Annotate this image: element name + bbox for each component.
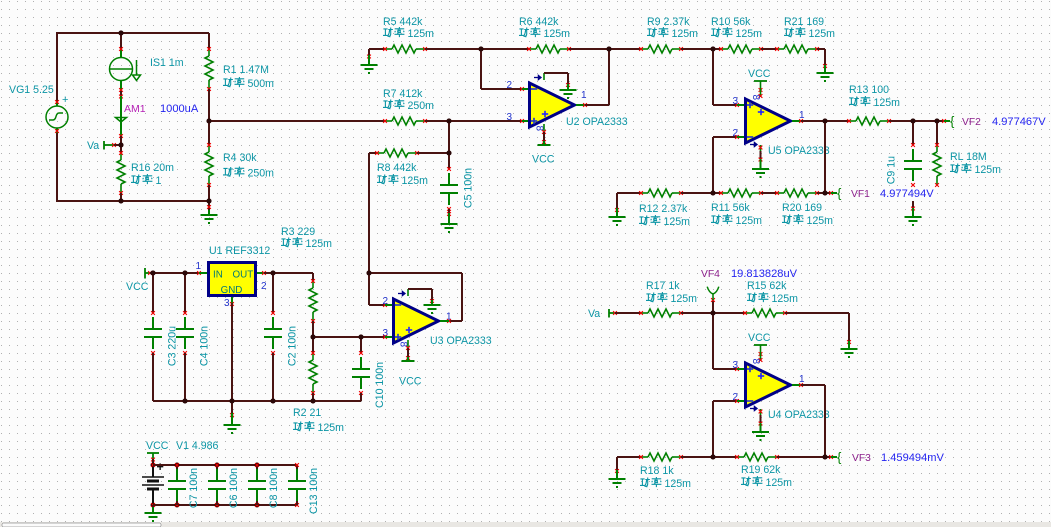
svg-text:C5 100n: C5 100n	[463, 168, 475, 208]
svg-text:125m: 125m	[664, 216, 691, 228]
node battery bottom	[151, 503, 156, 508]
svg-text:R19 62k: R19 62k	[741, 464, 781, 476]
wire U4 output	[792, 384, 801, 386]
wire U4 pin2	[712, 401, 714, 457]
node U3 feedback	[367, 271, 372, 276]
node Va	[119, 143, 124, 148]
op-amp U4	[746, 363, 791, 407]
svg-text:VF2: VF2	[962, 117, 981, 128]
svg-text:R20 169: R20 169	[782, 202, 822, 214]
node out-left	[207, 119, 212, 124]
svg-text:C4 100n: C4 100n	[199, 326, 211, 366]
capacitor C13	[296, 465, 298, 469]
svg-text:1000uA: 1000uA	[160, 103, 199, 115]
svg-text:125m: 125m	[766, 477, 793, 489]
svg-text:8: 8	[750, 95, 761, 101]
ground R15	[841, 349, 858, 357]
node U5 out	[823, 119, 828, 124]
svg-text:R12 2.37k: R12 2.37k	[639, 203, 688, 215]
svg-text:VCC: VCC	[146, 440, 169, 452]
resistor R19	[737, 453, 777, 461]
capacitor C3	[152, 273, 154, 313]
wire U2 output	[576, 104, 585, 106]
svg-text:R21 169: R21 169	[784, 16, 824, 28]
wire R8 feedback drop	[368, 153, 370, 273]
svg-text:VCC: VCC	[748, 332, 771, 344]
capacitor C6	[215, 463, 220, 468]
svg-text:19.813828uV: 19.813828uV	[731, 268, 798, 280]
resistor R20	[777, 189, 817, 197]
ground U2	[560, 90, 577, 98]
resistor R7	[385, 117, 425, 125]
node C3 top	[151, 271, 156, 276]
U1 pin2 wire	[257, 272, 263, 274]
node R3/R2	[311, 335, 316, 340]
svg-text:1: 1	[156, 175, 162, 187]
voltage source VG1	[56, 131, 58, 202]
svg-text:125m: 125m	[975, 164, 1002, 176]
resistor R3	[309, 281, 317, 321]
ground U3	[424, 305, 441, 313]
svg-text:R15 62k: R15 62k	[747, 280, 787, 292]
wire R6-R9	[569, 48, 641, 50]
svg-text:{: {	[950, 114, 955, 129]
capacitor C9	[912, 121, 914, 145]
resistor R15	[745, 309, 785, 317]
svg-text:U4 OPA2333: U4 OPA2333	[768, 409, 830, 421]
node battery top	[151, 463, 156, 468]
U1 pin1 tick	[197, 271, 201, 275]
resistor R17	[641, 309, 681, 317]
svg-text:1: 1	[581, 90, 587, 101]
U5 bottom pin gnd	[750, 143, 757, 147]
ground C9	[912, 201, 914, 209]
resistor R21	[777, 45, 817, 53]
wire vcc cap rail bottom	[153, 504, 297, 506]
wire R21 to gnd	[817, 48, 825, 50]
resistor R2	[312, 337, 314, 353]
svg-text:2: 2	[506, 80, 512, 91]
node R7/R8/C5	[447, 119, 452, 124]
battery V1	[142, 465, 164, 505]
svg-text:4.977467V: 4.977467V	[992, 116, 1046, 128]
op-amp U3	[394, 299, 439, 343]
svg-text:R16 20m: R16 20m	[131, 162, 174, 174]
svg-text:8: 8	[750, 359, 761, 365]
svg-text:125m: 125m	[672, 28, 699, 40]
svg-text:125m: 125m	[736, 215, 763, 227]
svg-text:125m: 125m	[318, 422, 345, 434]
IC U1 REF3312	[209, 263, 256, 296]
probe VF4	[712, 301, 714, 313]
U3 top pin to ground	[398, 292, 405, 296]
svg-text:R2 21: R2 21	[293, 407, 321, 419]
svg-text:1.459494mV: 1.459494mV	[881, 452, 945, 464]
svg-text:IN: IN	[213, 270, 223, 281]
svg-text:VCC: VCC	[748, 68, 771, 80]
node R9/R10	[711, 47, 716, 52]
svg-text:3: 3	[732, 360, 738, 371]
wire R19 out	[777, 456, 831, 458]
svg-text:C13 100n: C13 100n	[308, 468, 320, 514]
jumper VCC U5	[754, 80, 767, 82]
node VF4	[711, 311, 716, 316]
svg-text:R10 56k: R10 56k	[711, 16, 751, 28]
svg-text:+: +	[62, 94, 68, 106]
svg-text:OUT: OUT	[233, 270, 254, 281]
node C2 bottom	[271, 399, 276, 404]
svg-text:VCC: VCC	[126, 281, 149, 293]
svg-text:125m: 125m	[408, 28, 435, 40]
svg-text:C6 100n: C6 100n	[228, 468, 240, 508]
wire U2 pin3	[449, 120, 522, 122]
node R12/R11/pin2	[711, 191, 716, 196]
svg-text:R18 1k: R18 1k	[640, 465, 674, 477]
svg-text:VCC: VCC	[532, 154, 555, 166]
svg-text:V1 4.986: V1 4.986	[176, 440, 219, 452]
svg-text:R1 1.47M: R1 1.47M	[223, 64, 269, 76]
wire gnd rail	[153, 400, 361, 402]
capacitor C10	[360, 337, 362, 353]
capacitor C2	[272, 273, 274, 313]
ground left loop	[208, 201, 210, 212]
svg-text:3: 3	[224, 298, 230, 309]
wire U5 pin3	[712, 49, 714, 105]
capacitor C5	[448, 153, 450, 169]
svg-text:125m: 125m	[736, 28, 763, 40]
svg-text:RL 18M: RL 18M	[950, 151, 987, 163]
resistor R4	[208, 121, 210, 145]
op-amp U5	[746, 99, 791, 143]
wire R9 row	[609, 48, 641, 50]
ground R5	[368, 49, 370, 55]
wire R12-R11	[681, 192, 721, 194]
resistor R12	[641, 189, 681, 197]
svg-text:C2 100n: C2 100n	[287, 326, 299, 366]
node bottom rail R4	[207, 199, 212, 204]
svg-text:GND: GND	[221, 285, 243, 296]
jumper VCC U4	[754, 344, 767, 346]
svg-text:125m: 125m	[402, 175, 429, 187]
svg-text:IS1 1m: IS1 1m	[150, 57, 184, 69]
resistor R5	[369, 48, 385, 50]
svg-text:1: 1	[195, 261, 201, 272]
jumper VCC left	[144, 268, 146, 279]
jumper Va bottom	[608, 309, 610, 318]
svg-text:Va: Va	[87, 140, 99, 152]
wire R17-R15	[681, 312, 745, 314]
node U1 out	[271, 271, 276, 276]
svg-text:AM1: AM1	[124, 103, 146, 115]
resistor R1	[208, 33, 210, 49]
node VF1	[823, 191, 828, 196]
svg-text:R9 2.37k: R9 2.37k	[647, 16, 690, 28]
svg-text:500m: 500m	[248, 78, 275, 90]
svg-text:R4 30k: R4 30k	[223, 152, 257, 164]
node C10 top	[359, 335, 364, 340]
ground R21	[817, 73, 834, 81]
svg-text:R11 56k: R11 56k	[711, 202, 750, 214]
svg-text:R17 1k: R17 1k	[646, 280, 680, 292]
svg-text:R13 100: R13 100	[849, 84, 889, 96]
node VF3	[823, 455, 828, 460]
wire R13 out	[889, 120, 944, 122]
svg-text:4.977494V: 4.977494V	[880, 188, 934, 200]
svg-text:VCC: VCC	[399, 376, 422, 388]
node top IS1 junction	[119, 31, 124, 36]
probe VF1	[829, 191, 833, 195]
capacitor C8	[255, 463, 260, 468]
U3 output stub	[447, 319, 451, 323]
op-amp U2	[530, 83, 575, 127]
svg-text:125m: 125m	[809, 28, 836, 40]
svg-text:{: {	[837, 186, 842, 201]
node U1 gnd	[230, 399, 235, 404]
resistor RL	[936, 121, 938, 145]
svg-text:VF1: VF1	[851, 189, 870, 200]
bottom scrollbar	[0, 522, 1051, 527]
svg-text:{: {	[837, 450, 842, 465]
ground C5	[441, 224, 458, 232]
resistor R16	[120, 145, 122, 153]
resistor R18	[641, 453, 681, 461]
svg-text:C7 100n: C7 100n	[188, 468, 200, 508]
svg-text:3: 3	[506, 112, 512, 123]
svg-text:125m: 125m	[772, 293, 799, 305]
junction dots overlay	[119, 31, 124, 36]
U1 pin3 wire	[231, 297, 233, 303]
jumper Va	[103, 141, 105, 150]
capacitor C7	[175, 463, 180, 468]
svg-text:U5 OPA2333: U5 OPA2333	[768, 145, 830, 157]
current source IS1	[120, 33, 122, 48]
ground U5	[752, 169, 769, 177]
wire VF1 drop	[824, 121, 826, 193]
svg-text:U2 OPA2333: U2 OPA2333	[566, 116, 628, 128]
node U2 out rise	[607, 47, 612, 52]
U4 bottom pin gnd	[750, 407, 757, 411]
wire R15 gnd	[785, 312, 849, 314]
wire to R18	[617, 456, 641, 458]
jumper VCC battery	[147, 452, 159, 454]
svg-text:3: 3	[732, 96, 738, 107]
node C4 bottom	[183, 399, 188, 404]
svg-text:VF4: VF4	[701, 269, 720, 280]
U2 bottom pin VCC	[543, 124, 545, 131]
svg-text:250m: 250m	[248, 168, 275, 180]
ground R18	[609, 479, 626, 487]
node C4 top	[183, 271, 188, 276]
wire U3 pin2	[368, 273, 370, 305]
wire U3 feedback	[369, 272, 462, 274]
resistor R11	[721, 189, 761, 197]
svg-text:R7 412k: R7 412k	[383, 88, 423, 100]
wire R7 to node	[425, 120, 449, 122]
resistor R9	[641, 45, 681, 53]
svg-text:C3 220u: C3 220u	[167, 326, 179, 366]
ammeter AM1	[120, 91, 122, 96]
svg-text:125m: 125m	[807, 215, 834, 227]
resistor R6	[529, 45, 569, 53]
node C9 top	[911, 119, 916, 124]
wire top-left rail	[57, 32, 209, 34]
U2 top pin to ground	[534, 76, 541, 80]
svg-text:R6 442k: R6 442k	[519, 16, 559, 28]
resistor R10	[721, 45, 761, 53]
wire Va net to R7	[209, 120, 385, 122]
ground battery	[152, 505, 154, 508]
wire bottom-left rail	[57, 200, 209, 202]
svg-text:250m: 250m	[408, 100, 435, 112]
node bottom rail R16	[119, 199, 124, 204]
node R5/R6/pin2	[479, 47, 484, 52]
node R18/R19	[711, 455, 716, 460]
svg-text:Va: Va	[588, 308, 600, 320]
U3 bottom pin VCC	[407, 340, 409, 347]
wire U5 pin2	[712, 137, 714, 193]
ground U1	[231, 401, 233, 414]
resistor R8	[369, 152, 377, 154]
svg-text:C8 100n: C8 100n	[268, 468, 280, 508]
svg-text:VF3: VF3	[852, 453, 871, 464]
svg-text:VG1 5.25: VG1 5.25	[9, 84, 54, 96]
svg-text:125m: 125m	[665, 478, 692, 490]
svg-text:+: +	[157, 460, 164, 474]
svg-text:R3 229: R3 229	[281, 226, 315, 238]
wire R11-R20	[761, 192, 777, 194]
svg-text:R8 442k: R8 442k	[377, 162, 417, 174]
resistor R13	[825, 120, 849, 122]
svg-text:2: 2	[382, 296, 388, 307]
wire U5 output	[792, 120, 801, 122]
wire to R12	[617, 192, 641, 194]
wire vcc cap rail top	[153, 464, 297, 466]
ground R12	[616, 193, 618, 209]
wire R20 out	[817, 192, 831, 194]
wire U3 pin3 net	[313, 336, 385, 338]
wire to R3	[273, 272, 313, 274]
svg-text:125m: 125m	[306, 238, 333, 250]
node R2 bottom	[311, 399, 316, 404]
svg-text:125m: 125m	[544, 28, 571, 40]
svg-text:125m: 125m	[671, 293, 698, 305]
ground U4	[752, 432, 769, 440]
svg-text:U3 OPA2333: U3 OPA2333	[430, 335, 492, 347]
svg-text:125m: 125m	[874, 97, 901, 109]
svg-text:R5 442k: R5 442k	[383, 16, 423, 28]
svg-text:C10 100n: C10 100n	[374, 362, 386, 408]
probe VF3	[829, 455, 833, 459]
node RL top	[935, 119, 940, 124]
svg-text:U1 REF3312: U1 REF3312	[209, 245, 270, 257]
wire U4 pin3	[712, 313, 714, 369]
capacitor C4	[184, 273, 186, 313]
wire R9-R10	[681, 48, 721, 50]
wire R10-R21	[761, 48, 777, 50]
svg-text:C9 1u: C9 1u	[886, 156, 898, 184]
wire R5-R6	[425, 48, 529, 50]
svg-text:2: 2	[261, 281, 267, 292]
wire pin2 drop	[480, 49, 482, 89]
wire R18-R19	[681, 456, 737, 458]
probe VF2	[942, 119, 946, 123]
